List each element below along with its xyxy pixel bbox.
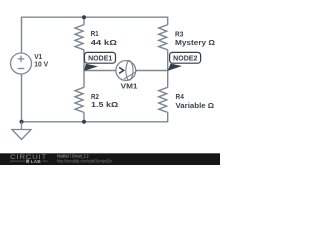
wire middle branch stub top [83,17,85,25]
watermark bar [0,153,220,165]
wire voltmeter left [84,70,116,72]
svg-text:R3: R3 [175,31,183,38]
junction dot bottom middle [82,120,86,124]
svg-text:NODE1: NODE1 [88,56,112,63]
voltmeter VM1 [116,60,137,81]
svg-text:1.5 kΩ: 1.5 kΩ [91,102,119,109]
node NODE2 flag pointer [168,64,182,71]
svg-text:Mystery Ω: Mystery Ω [175,40,215,47]
node NODE2 box [170,52,201,63]
svg-text:http://circuitlab.com/c/pd/34z: http://circuitlab.com/c/pd/34z4yu55x [57,158,113,163]
wire top horizontal [22,16,168,18]
junction dot top middle [82,15,86,19]
resistor R1 [75,25,84,50]
junction dot bottom left [20,120,24,124]
svg-text:V1: V1 [34,54,42,61]
svg-text:NODE2: NODE2 [173,56,197,63]
wire bottom horizontal [22,121,168,123]
wire right branch mid [167,50,169,88]
svg-text:10 V: 10 V [34,61,48,68]
wire right branch stub top [167,17,169,25]
voltage source V1 [11,53,32,74]
svg-text:44 kΩ: 44 kΩ [91,40,118,47]
wire middle branch stub bottom [83,112,85,121]
wire middle branch mid [83,50,85,88]
wire voltmeter right [136,70,168,72]
svg-text:LAB: LAB [31,159,41,165]
svg-text:R1: R1 [91,31,99,38]
svg-text:VM1: VM1 [121,83,138,90]
wire right branch stub bottom [167,112,169,121]
ground [12,122,31,140]
svg-text:R2: R2 [91,94,99,101]
resistor R2 [75,87,84,112]
svg-text:Variable Ω: Variable Ω [176,103,215,110]
node NODE1 flag pointer [84,64,98,71]
resistor R4 [159,87,168,112]
node NODE1 box [85,52,116,63]
resistor R3 [159,25,168,50]
svg-text:R4: R4 [176,94,184,101]
CircuitLab logo [10,155,48,165]
wire left branch lower [21,74,23,122]
wire left branch upper [21,17,23,53]
